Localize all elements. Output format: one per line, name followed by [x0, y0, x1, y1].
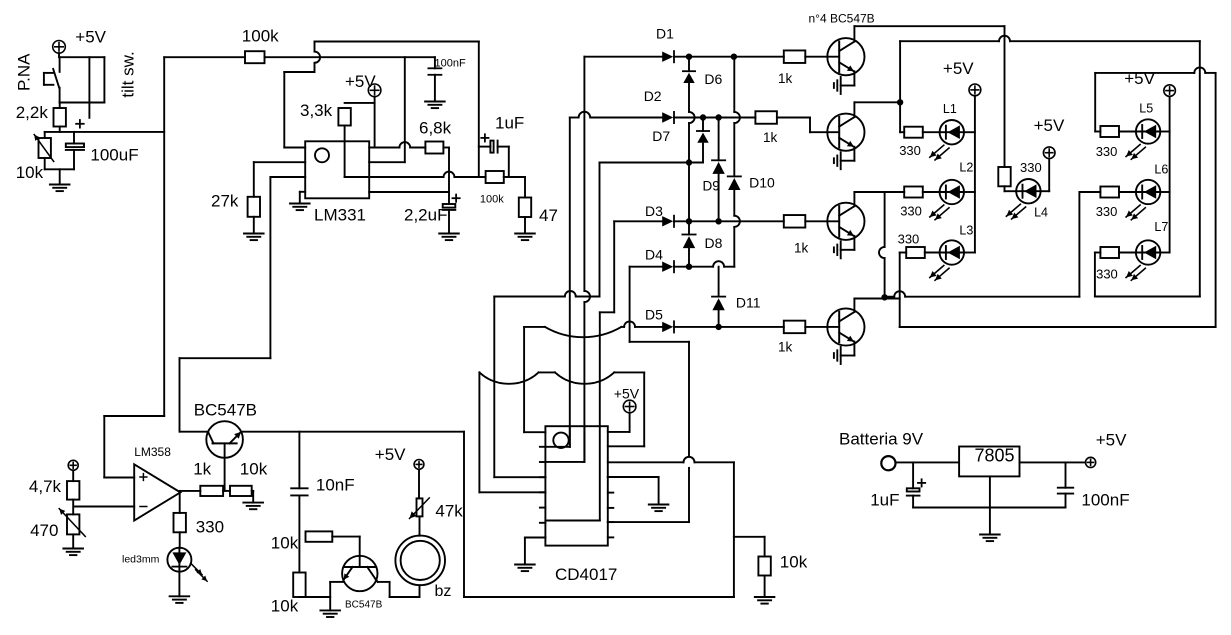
svg-text:47k: 47k	[435, 502, 463, 521]
svg-text:D9: D9	[703, 179, 720, 194]
svg-text:D11: D11	[736, 295, 761, 311]
svg-text:330: 330	[1096, 267, 1118, 282]
svg-text:tilt sw.: tilt sw.	[119, 51, 138, 97]
svg-text:47: 47	[539, 206, 558, 225]
svg-text:330: 330	[900, 204, 922, 219]
svg-text:10k: 10k	[240, 460, 268, 479]
svg-text:D6: D6	[704, 71, 722, 87]
svg-text:bz: bz	[435, 583, 452, 600]
svg-text:Batteria 9V: Batteria 9V	[839, 430, 924, 449]
svg-text:330: 330	[898, 232, 920, 247]
svg-text:10nF: 10nF	[316, 476, 355, 495]
svg-text:+5V: +5V	[1034, 116, 1065, 135]
svg-text:+5V: +5V	[75, 28, 106, 47]
svg-text:BC547B: BC547B	[345, 600, 383, 611]
svg-text:BC547B: BC547B	[194, 401, 257, 420]
svg-text:7805: 7805	[975, 445, 1015, 465]
svg-text:D4: D4	[645, 247, 663, 263]
svg-text:D7: D7	[652, 128, 670, 144]
svg-text:2,2k: 2,2k	[16, 103, 49, 122]
svg-text:D1: D1	[656, 26, 674, 42]
svg-text:100nF: 100nF	[435, 58, 466, 70]
svg-text:100k: 100k	[480, 194, 504, 206]
svg-text:100nF: 100nF	[1081, 491, 1129, 510]
svg-text:D10: D10	[749, 175, 775, 191]
svg-text:+5V: +5V	[1124, 69, 1155, 88]
svg-text:330: 330	[1096, 204, 1118, 219]
svg-text:1k: 1k	[778, 340, 793, 355]
svg-text:D8: D8	[705, 235, 723, 251]
svg-text:+5V: +5V	[614, 385, 640, 401]
svg-text:+5V: +5V	[1096, 431, 1127, 450]
svg-text:1k: 1k	[193, 460, 211, 479]
svg-text:+5V: +5V	[375, 445, 406, 464]
svg-text:1k: 1k	[778, 71, 793, 86]
svg-text:10k: 10k	[780, 553, 808, 572]
svg-text:D5: D5	[645, 307, 663, 323]
svg-text:1uF: 1uF	[495, 114, 524, 133]
svg-text:n°4 BC547B: n°4 BC547B	[809, 12, 875, 26]
svg-text:CD4017: CD4017	[555, 565, 617, 584]
svg-text:L1: L1	[943, 102, 957, 116]
svg-text:100uF: 100uF	[90, 146, 138, 165]
svg-text:D2: D2	[644, 88, 662, 104]
svg-text:27k: 27k	[211, 192, 239, 211]
svg-text:L4: L4	[1034, 206, 1048, 220]
svg-text:330: 330	[1020, 160, 1042, 175]
svg-text:L6: L6	[1154, 162, 1168, 176]
svg-text:3,3k: 3,3k	[300, 101, 333, 120]
svg-text:L3: L3	[959, 224, 973, 238]
svg-text:LM358: LM358	[134, 445, 171, 459]
svg-text:6,8k: 6,8k	[419, 119, 452, 138]
svg-text:100k: 100k	[242, 27, 279, 46]
svg-text:470: 470	[30, 521, 58, 540]
svg-text:1k: 1k	[794, 241, 809, 256]
svg-text:LM331: LM331	[314, 206, 366, 225]
svg-text:2,2uF: 2,2uF	[404, 206, 447, 225]
svg-text:L7: L7	[1154, 220, 1168, 234]
svg-text:330: 330	[1096, 144, 1118, 159]
svg-text:10k: 10k	[271, 534, 299, 553]
svg-text:1uF: 1uF	[870, 491, 899, 510]
svg-text:D3: D3	[645, 203, 663, 219]
svg-text:led3mm: led3mm	[122, 554, 160, 566]
svg-text:4,7k: 4,7k	[29, 477, 62, 496]
svg-text:L5: L5	[1139, 101, 1153, 115]
svg-text:1k: 1k	[763, 130, 778, 145]
svg-text:330: 330	[899, 143, 921, 158]
svg-text:L2: L2	[959, 161, 973, 175]
svg-text:10k: 10k	[271, 597, 299, 616]
svg-text:+5V: +5V	[943, 59, 974, 78]
svg-text:+5V: +5V	[345, 72, 376, 91]
svg-text:P.NA: P.NA	[15, 53, 34, 91]
svg-text:330: 330	[196, 518, 224, 537]
svg-text:10k: 10k	[16, 163, 44, 182]
